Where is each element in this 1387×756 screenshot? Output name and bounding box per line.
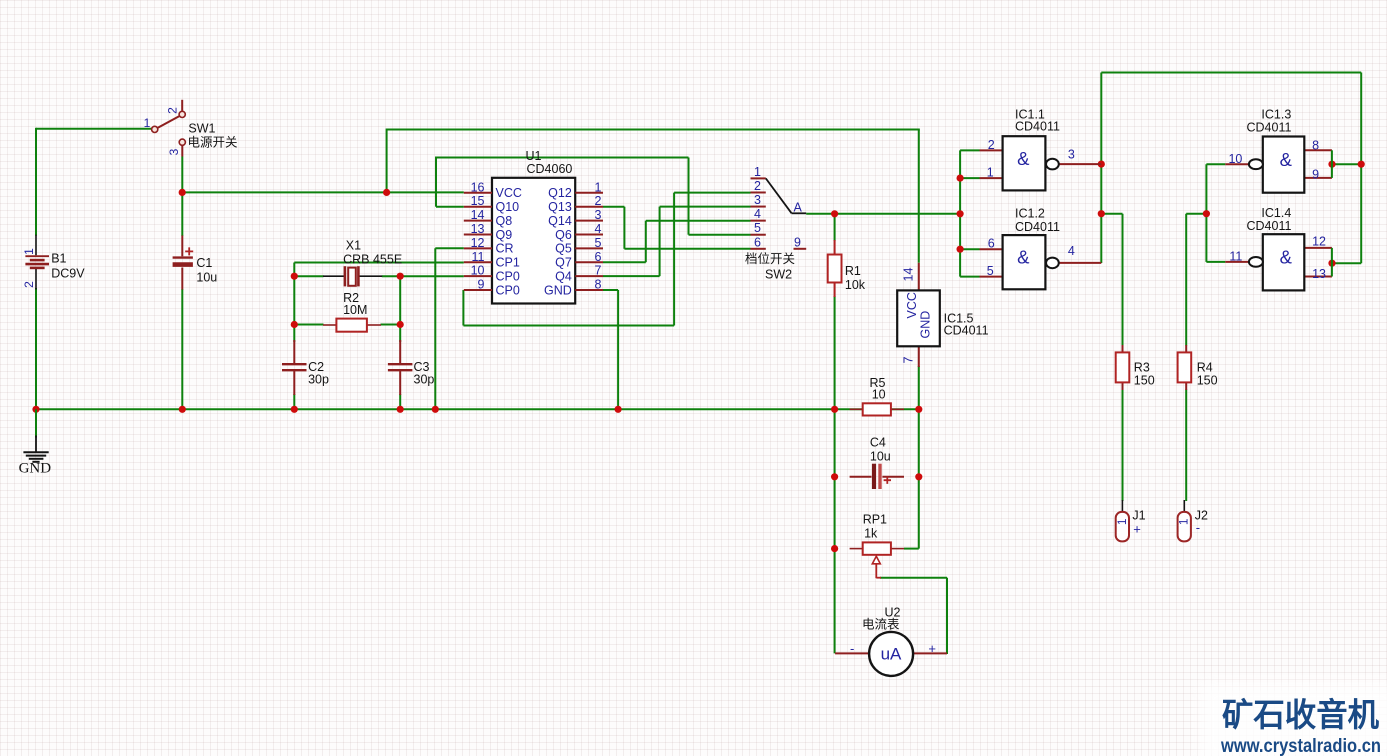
svg-text:CD4011: CD4011 (1015, 220, 1060, 234)
svg-text:13: 13 (471, 222, 485, 236)
junction X1 left node (291, 273, 298, 280)
svg-text:4: 4 (754, 207, 761, 221)
wire R3 bottom to J1 (1122, 390, 1124, 502)
junction R2 left node (291, 321, 298, 328)
svg-text:13: 13 (1312, 267, 1326, 281)
svg-text:uA: uA (881, 645, 902, 664)
wire battery top vertical (35, 128, 37, 236)
U1 pin 13 Q9 (464, 222, 512, 242)
svg-text:X1: X1 (346, 239, 361, 253)
svg-text:+: + (1133, 521, 1141, 536)
svg-text:+: + (928, 641, 936, 656)
svg-text:9: 9 (794, 235, 801, 249)
U1 pin 11 CP1 (464, 250, 520, 270)
wire C3 bottom to rail (399, 394, 401, 409)
wire IC1.3 IC1.4 output column (1360, 73, 1362, 264)
U1 pin 10 CP0 (464, 264, 520, 284)
svg-text:SW1: SW1 (188, 121, 215, 135)
wire top-left horizontal from battery to SW1 pin1 (36, 128, 152, 130)
wire IC1.3 outputs link to column (1332, 163, 1361, 165)
wire IC1.1 output vertical column (1100, 73, 1102, 264)
svg-text:R4: R4 (1197, 360, 1213, 374)
wire U1 CP0 pin10 to crystal X1 right node (400, 275, 464, 277)
svg-text:档位开关: 档位开关 (745, 251, 795, 266)
svg-text:Q13: Q13 (548, 200, 572, 214)
U1 pin 7 Q4 (555, 264, 603, 284)
junction RP1 left (831, 545, 838, 552)
wire IC1.3 IC1.4 input column (1205, 164, 1207, 262)
switch SW1 (144, 100, 186, 157)
svg-text:CP1: CP1 (496, 256, 520, 270)
svg-text:5: 5 (595, 236, 602, 250)
svg-text:6: 6 (754, 235, 761, 249)
wire U1 CP0 pin9 under-IC return to SW2 pin2 column (462, 290, 464, 326)
svg-text:1: 1 (754, 165, 761, 179)
resistor R5 (850, 403, 904, 415)
wire top long horizontal feedback (1101, 72, 1361, 74)
svg-text:10: 10 (1228, 152, 1242, 166)
U1 pin 12 CR (464, 236, 514, 256)
svg-text:9: 9 (478, 278, 485, 292)
svg-text:150: 150 (1134, 373, 1155, 387)
svg-text:B1: B1 (51, 251, 66, 265)
wire IC1.5 pin7 down to R5 right node and RP1 right (918, 366, 920, 549)
svg-text:1: 1 (1179, 519, 1191, 525)
U1 pin 14 Q8 (464, 208, 512, 228)
svg-text:2: 2 (166, 107, 180, 114)
svg-text:IC1.3: IC1.3 (1261, 108, 1291, 122)
wire U1 CR pin12 to ground rail (435, 247, 464, 249)
svg-text:CD4011: CD4011 (1247, 121, 1292, 135)
gate IC1.2 CD4011 (980, 235, 1102, 289)
svg-text:Q8: Q8 (496, 214, 513, 228)
svg-text:GND: GND (919, 311, 933, 339)
junction X1 right node (397, 273, 404, 280)
svg-text:12: 12 (471, 236, 485, 250)
svg-text:矿石收音机: 矿石收音机 (1222, 697, 1379, 733)
wire U1 Q4 pin7 to SW2 pin3 (603, 275, 660, 277)
svg-text:6: 6 (988, 237, 995, 251)
svg-text:Q14: Q14 (548, 214, 572, 228)
connector J1 (1116, 500, 1129, 541)
svg-text:CRB 455E: CRB 455E (343, 252, 402, 266)
battery B1 (22, 235, 49, 290)
svg-text:11: 11 (1229, 250, 1242, 264)
wire IC1.4 outputs link to column (1332, 262, 1361, 264)
wire X1 right node vertical to R2 right and C3 (399, 276, 401, 342)
junction IC1.3 input column / R4 feed (1203, 210, 1210, 217)
svg-text:10u: 10u (196, 270, 217, 284)
U1 pin 8 GND (544, 278, 603, 298)
svg-text:CP0: CP0 (496, 269, 520, 283)
svg-text:CD4060: CD4060 (527, 162, 573, 176)
wire X1 left node verticals to R2 and C2 (293, 276, 295, 342)
junction ground rail at R1 / R5 left (831, 406, 838, 413)
wire R1 bottom down through rail C4 RP1 to meter minus (834, 296, 836, 653)
svg-text:A: A (794, 201, 803, 215)
svg-text:1: 1 (595, 180, 602, 194)
U1 pin 16 VCC (464, 180, 522, 200)
svg-text:Q4: Q4 (555, 269, 572, 283)
svg-text:&: & (1017, 148, 1030, 169)
wire U1 GND pin8 down to ground rail (603, 289, 618, 291)
U1 pin 9 CP0 (464, 278, 520, 298)
ground symbol (23, 409, 48, 462)
wire X1 right lead green (382, 275, 400, 277)
svg-text:30p: 30p (414, 372, 435, 386)
junction ground rail at battery (32, 406, 39, 413)
svg-text:&: & (1017, 247, 1030, 268)
svg-text:16: 16 (471, 180, 485, 194)
svg-text:电流表: 电流表 (862, 618, 900, 632)
svg-text:www.crystalradio.cn: www.crystalradio.cn (1220, 736, 1381, 756)
junction IC1.4 outputs 12-13 (1328, 260, 1335, 267)
wire riser x=386 up from VCC line (386, 129, 388, 193)
svg-text:DC9V: DC9V (51, 266, 85, 280)
gate IC1.3 CD4011 (1225, 137, 1332, 193)
junction VCC line riser (383, 189, 390, 196)
junction ground rail at CR drop (432, 406, 439, 413)
svg-text:CR: CR (496, 242, 514, 256)
svg-text:1: 1 (1117, 519, 1129, 525)
svg-text:CP0: CP0 (496, 283, 520, 297)
capacitor C4 (850, 464, 904, 489)
svg-text:RP1: RP1 (863, 512, 887, 526)
wire top middle horizontal to IC1.5 VCC column (387, 129, 920, 131)
wire U1 Q10 pin15 to SW2 pin5 (436, 206, 464, 208)
capacitor C2 (282, 340, 307, 395)
svg-text:1: 1 (22, 248, 36, 255)
U1 pin 3 Q14 (548, 208, 603, 228)
crystal X1 (323, 266, 382, 286)
svg-text:&: & (1280, 149, 1293, 170)
svg-text:10: 10 (872, 388, 886, 402)
svg-text:3: 3 (1068, 148, 1075, 162)
svg-text:CD4011: CD4011 (944, 324, 989, 338)
wire gate input column IC1.1 IC1.2 (959, 150, 961, 276)
connector J2 (1178, 500, 1191, 541)
wire IC1.5 VCC column down to pin 14 (918, 130, 920, 263)
svg-text:10: 10 (471, 264, 485, 278)
svg-text:Q12: Q12 (548, 186, 572, 200)
svg-text:C1: C1 (196, 256, 212, 270)
svg-text:1: 1 (144, 116, 151, 130)
wire X1 left lead green (294, 275, 323, 277)
junction gate IC1.1 pin1 tee (957, 175, 964, 182)
switch SW2 (751, 165, 807, 249)
wire R4 bottom to J2 (1185, 390, 1187, 502)
svg-text:7: 7 (902, 357, 916, 364)
svg-text:3: 3 (754, 193, 761, 207)
svg-text:6: 6 (595, 250, 602, 264)
svg-text:2: 2 (595, 194, 602, 208)
svg-text:10k: 10k (845, 278, 866, 292)
IC U1 CD4060 body (492, 178, 575, 304)
svg-text:1: 1 (987, 166, 994, 180)
svg-text:14: 14 (471, 208, 485, 222)
wire U1 Q13 pin2 to SW2 pin6 (603, 206, 624, 208)
junction node A / R1 (831, 210, 838, 217)
wire horizontal VCC feed y=192 to U1 pin16 (182, 191, 464, 193)
junction output column / R3 feed (1098, 210, 1105, 217)
wire battery bottom vertical to ground rail (35, 288, 37, 410)
junction IC1.3 outputs 8-9 (1328, 161, 1335, 168)
resistor R3 (1116, 345, 1130, 390)
wire R1 top from node A (834, 214, 836, 241)
U1 pin 6 Q7 (555, 250, 603, 270)
svg-text:4: 4 (595, 222, 602, 236)
wire output junction to R3 drop (1101, 213, 1122, 215)
svg-text:30p: 30p (308, 372, 329, 386)
resistor R1 (828, 240, 842, 297)
svg-text:15: 15 (471, 194, 485, 208)
junction R5 right / IC1.5 pin7 column (915, 406, 922, 413)
svg-text:R1: R1 (845, 264, 861, 278)
wire node A horizontal to gate input column (806, 213, 960, 215)
svg-text:SW2: SW2 (765, 268, 792, 282)
wire C2 bottom to rail (293, 394, 295, 409)
svg-text:11: 11 (472, 250, 485, 264)
svg-text:U1: U1 (526, 149, 542, 163)
svg-text:Q10: Q10 (496, 200, 520, 214)
svg-text:14: 14 (902, 268, 916, 282)
svg-text:VCC: VCC (905, 292, 919, 318)
svg-text:Q9: Q9 (496, 228, 513, 242)
svg-text:GND: GND (19, 460, 52, 476)
svg-text:12: 12 (1312, 235, 1326, 249)
resistor R4 (1178, 345, 1192, 390)
wire R2 row horizontals (294, 324, 323, 326)
svg-text:4: 4 (1068, 244, 1075, 258)
svg-text:150: 150 (1197, 373, 1218, 387)
svg-text:Q6: Q6 (555, 228, 572, 242)
junction ground rail at U1 GND drop (615, 406, 622, 413)
svg-text:7: 7 (595, 264, 602, 278)
wire U1 CP1 pin11 to crystal X1 left node (294, 262, 464, 264)
wire bottom ground rail (35, 408, 920, 410)
resistor R2 (323, 319, 381, 332)
svg-text:-: - (1196, 520, 1200, 535)
svg-text:Q5: Q5 (555, 242, 572, 256)
capacitor C1 (173, 236, 194, 290)
U1 pin 1 Q12 (548, 180, 603, 200)
gate IC1.1 CD4011 (980, 136, 1102, 190)
junction C4 left (831, 473, 838, 480)
junction feedback column / IC1.3 outputs (1358, 161, 1365, 168)
svg-text:C4: C4 (870, 435, 886, 449)
svg-text:CD4011: CD4011 (1247, 219, 1292, 233)
svg-text:CD4011: CD4011 (1015, 120, 1060, 134)
svg-text:GND: GND (544, 283, 572, 297)
gate IC1.4 CD4011 (1225, 234, 1332, 290)
svg-text:3: 3 (595, 208, 602, 222)
junction R2 right node (397, 321, 404, 328)
svg-text:9: 9 (1312, 167, 1319, 181)
wire U1 Q7 pin6 to SW2 pin4 (603, 261, 646, 263)
svg-text:&: & (1280, 247, 1293, 268)
junction node A / gate input column (957, 210, 964, 217)
wire SW1 pin3 down to junction and C1 (181, 157, 183, 237)
junction IC1.1 output pin3 (1098, 161, 1105, 168)
svg-text:1k: 1k (864, 526, 878, 540)
junction ground rail at C1 (179, 406, 186, 413)
U1 pin 15 Q10 (464, 194, 519, 214)
svg-text:8: 8 (595, 278, 602, 292)
svg-text:VCC: VCC (496, 186, 522, 200)
svg-text:2: 2 (22, 281, 36, 288)
U1 pin 5 Q5 (555, 236, 603, 256)
svg-text:IC1.2: IC1.2 (1015, 206, 1045, 220)
junction gate IC1.2 pin6 tee (957, 246, 964, 253)
svg-text:5: 5 (754, 221, 761, 235)
svg-text:-: - (850, 641, 854, 656)
junction at SW1 pin3 / VCC line (179, 189, 186, 196)
svg-text:2: 2 (754, 179, 761, 193)
svg-text:3: 3 (167, 148, 181, 155)
svg-text:电源开关: 电源开关 (188, 136, 238, 150)
svg-text:10u: 10u (870, 449, 891, 463)
svg-text:5: 5 (987, 264, 994, 278)
IC1.5 CD4011 power block (897, 263, 940, 367)
junction C4 right (915, 473, 922, 480)
junction ground rail at C2 (291, 406, 298, 413)
svg-text:Q7: Q7 (555, 256, 572, 270)
svg-text:R3: R3 (1134, 360, 1150, 374)
U1 pin 2 Q13 (548, 194, 603, 214)
capacitor C3 (388, 340, 413, 395)
potentiometer RP1 (850, 542, 904, 578)
junction ground rail at C3 (397, 406, 404, 413)
meter U2 (835, 632, 947, 676)
wire RP1 wiper to meter plus (880, 577, 947, 579)
wire R4 drop from input column junction (1186, 213, 1206, 215)
wire C1 bottom to ground rail (181, 289, 183, 409)
svg-text:10M: 10M (343, 303, 367, 317)
svg-text:8: 8 (1312, 138, 1319, 152)
svg-text:2: 2 (988, 138, 995, 152)
U1 pin 4 Q6 (555, 222, 603, 242)
